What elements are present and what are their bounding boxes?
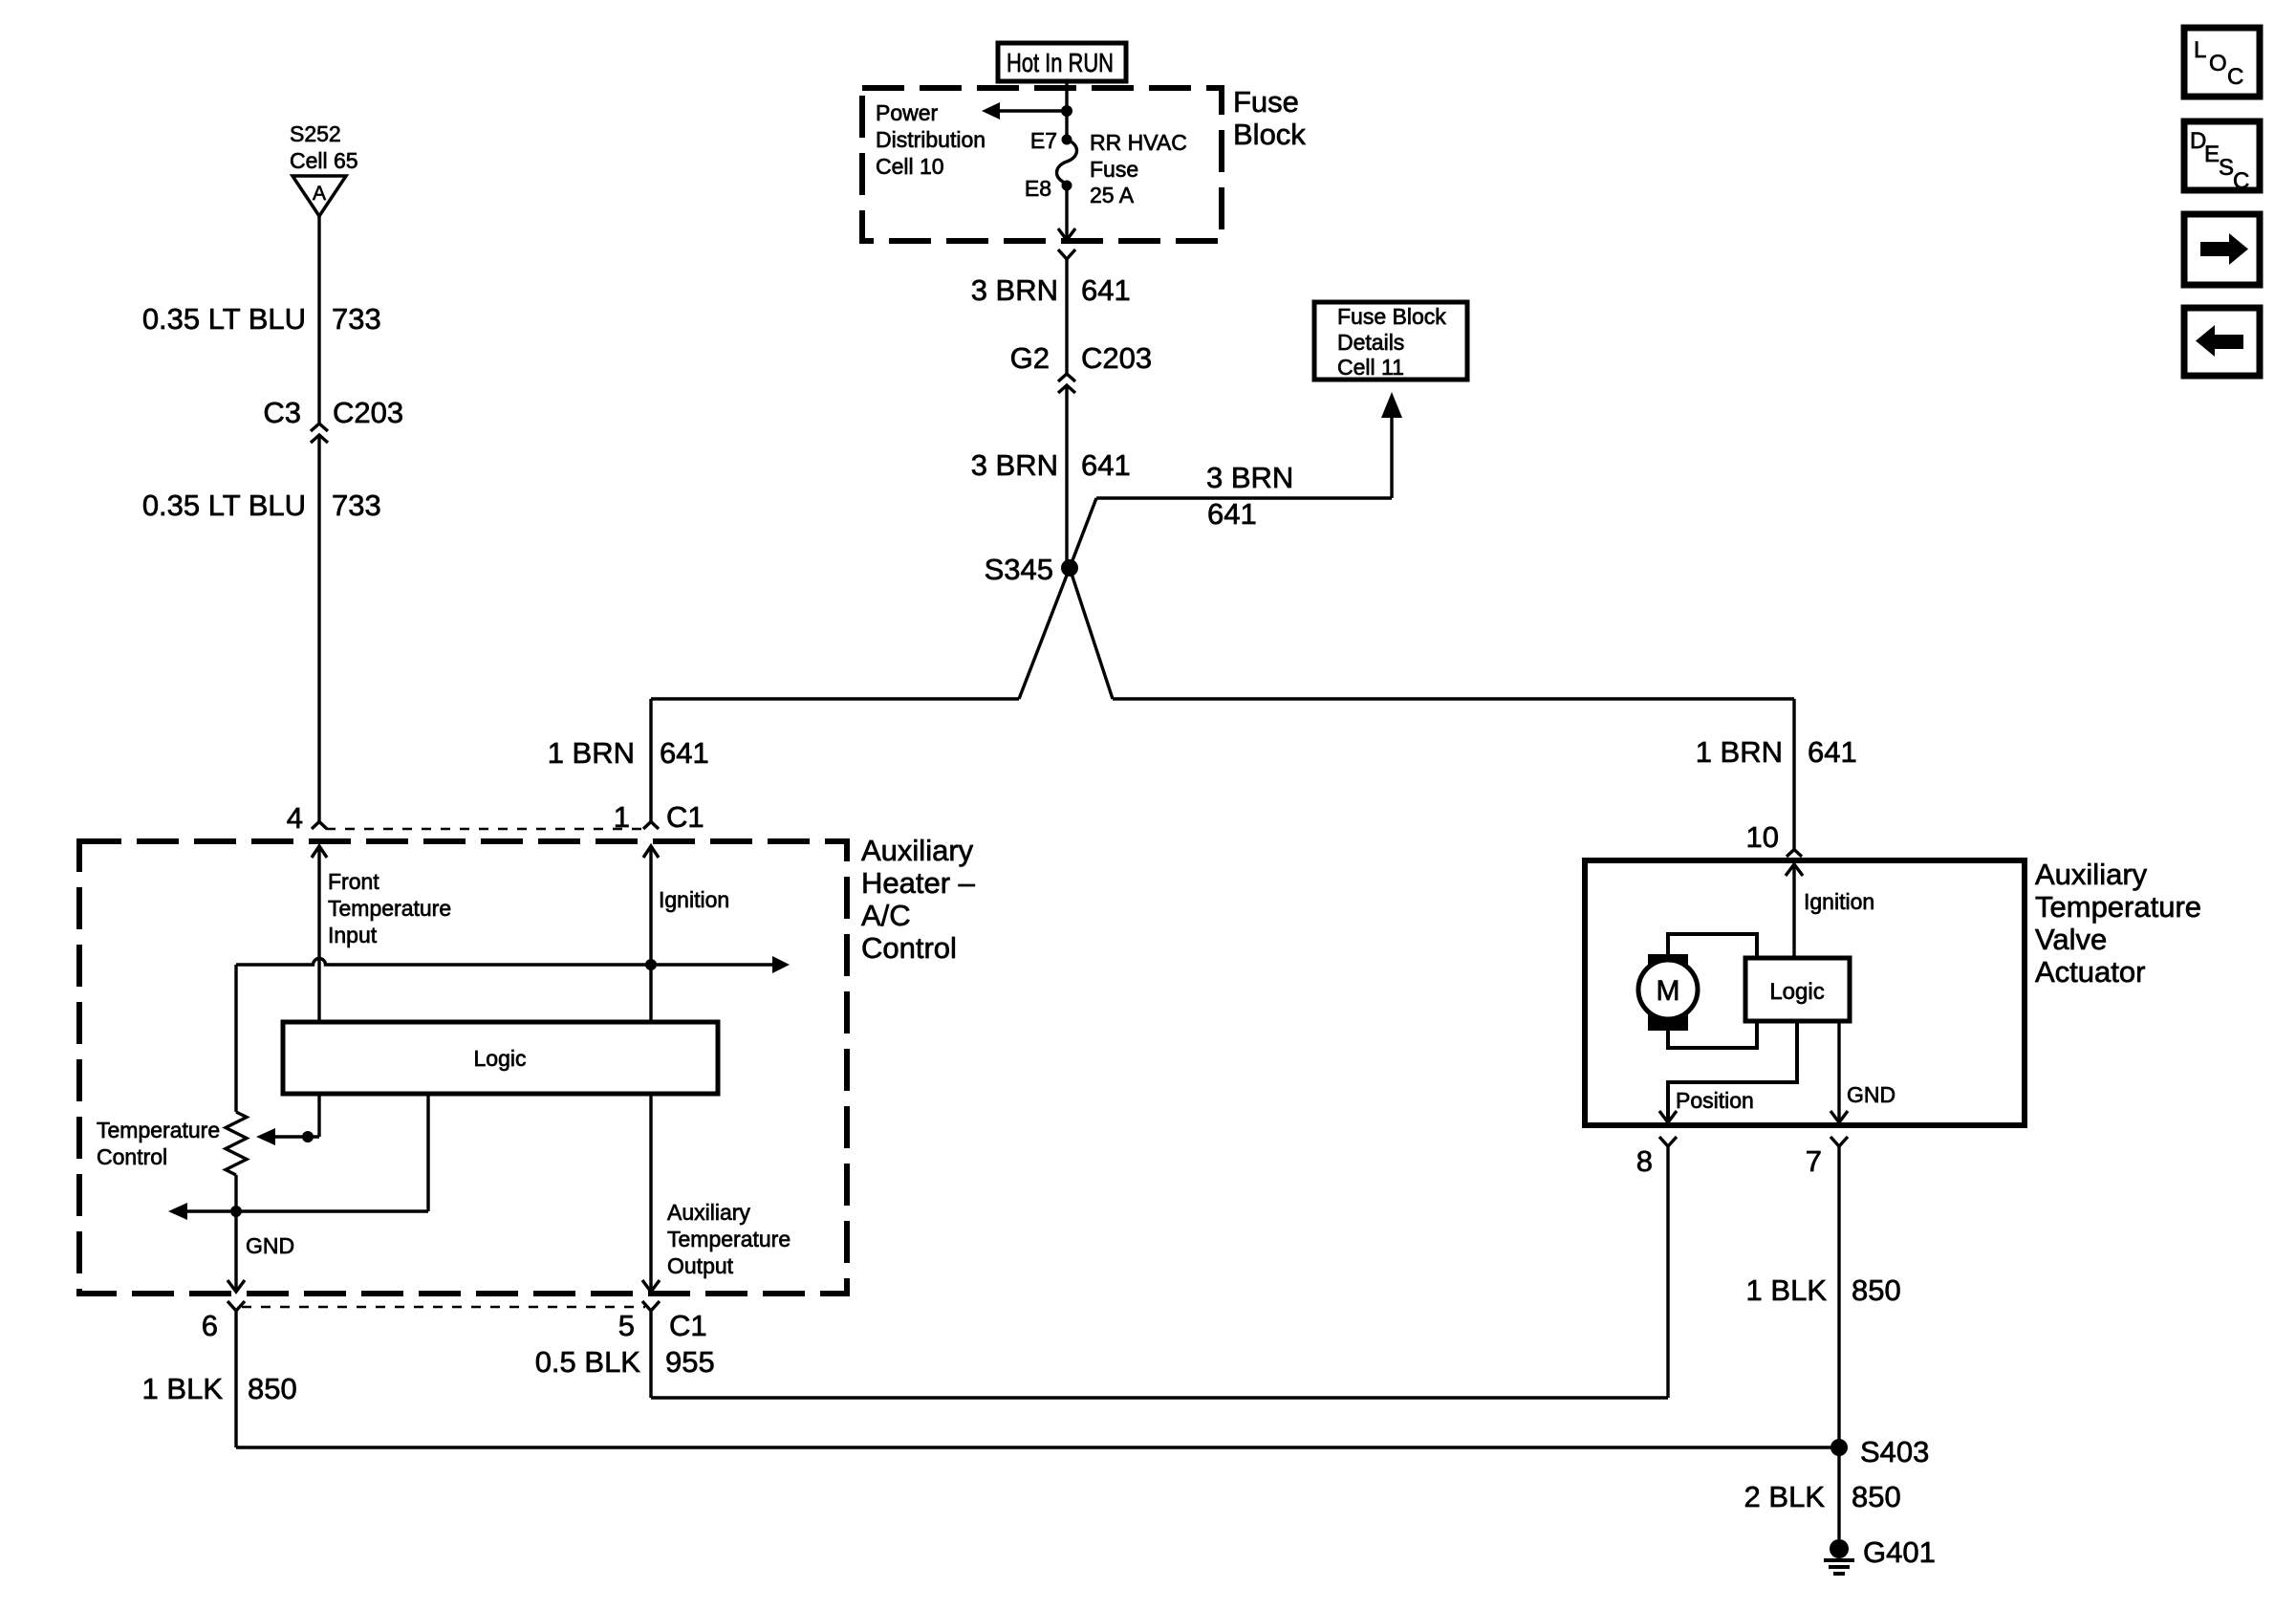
junction node (power distribution tap): [1061, 105, 1072, 117]
label 0.35 LT BLU 733 (upper): [142, 302, 381, 336]
svg-text:Ignition: Ignition: [1804, 889, 1874, 914]
svg-text:Ignition: Ignition: [659, 887, 729, 912]
previous-page arrow icon: [2184, 308, 2260, 376]
svg-text:Input: Input: [328, 923, 378, 947]
connector chevron below fuse block: [1058, 250, 1075, 374]
svg-text:C203: C203: [333, 396, 403, 429]
svg-text:733: 733: [332, 489, 381, 522]
connector C1 thin dashed line (top): [326, 828, 644, 831]
svg-text:25 A: 25 A: [1090, 183, 1135, 207]
svg-text:Auxiliary: Auxiliary: [861, 834, 974, 867]
svg-text:3 BRN: 3 BRN: [1206, 461, 1293, 494]
label 1 BRN 641 (left): [548, 736, 709, 770]
svg-text:E: E: [2204, 141, 2220, 167]
svg-text:Temperature: Temperature: [667, 1227, 791, 1251]
splice symbol S252 Cell 65 (triangle A): [290, 121, 358, 216]
connector G2 / C203 (in-line, double chevron): [1010, 341, 1152, 393]
junction node on ignition wire: [645, 959, 657, 970]
svg-text:641: 641: [1081, 448, 1131, 482]
svg-text:Control: Control: [861, 931, 957, 965]
svg-text:Output: Output: [667, 1253, 734, 1278]
svg-text:Cell 11: Cell 11: [1337, 355, 1404, 380]
svg-text:641: 641: [1207, 497, 1257, 531]
splice S345: [985, 553, 1078, 586]
svg-text:C1: C1: [669, 1309, 707, 1342]
LOC reference icon: [2184, 28, 2260, 97]
svg-text:Valve: Valve: [2035, 923, 2107, 956]
svg-text:1 BLK: 1 BLK: [142, 1372, 224, 1405]
svg-text:955: 955: [665, 1345, 715, 1379]
svg-text:Details: Details: [1337, 330, 1404, 355]
wire from C203 to splice S345: [1065, 385, 1068, 566]
svg-text:E8: E8: [1025, 176, 1051, 201]
splice S403: [1830, 1435, 1929, 1469]
svg-text:5: 5: [618, 1309, 635, 1342]
svg-text:L: L: [2194, 37, 2206, 63]
svg-text:Cell 10: Cell 10: [876, 154, 944, 179]
svg-text:Fuse: Fuse: [1233, 85, 1299, 119]
svg-text:Position: Position: [1676, 1088, 1754, 1113]
temperature control output arrow (left): [168, 1203, 242, 1220]
svg-text:G401: G401: [1863, 1535, 1936, 1569]
svg-text:Control: Control: [97, 1144, 167, 1169]
svg-text:1 BRN: 1 BRN: [1696, 735, 1783, 769]
svg-text:850: 850: [248, 1372, 297, 1405]
label 3 BRN 641 (lower): [971, 448, 1131, 482]
svg-text:0.5 BLK: 0.5 BLK: [535, 1345, 641, 1379]
fuse block dashed box: [862, 88, 1222, 241]
svg-text:Fuse: Fuse: [1090, 157, 1138, 182]
pin 8 connector chevron: [1659, 1137, 1677, 1398]
label 1 BLK 850 (right): [1746, 1273, 1901, 1307]
pin 1 label C1: [614, 800, 704, 834]
terminal E7: [1030, 128, 1072, 153]
label 2 BLK 850: [1744, 1480, 1901, 1513]
svg-text:Temperature: Temperature: [2035, 890, 2201, 924]
svg-text:Hot In RUN: Hot In RUN: [1007, 48, 1114, 77]
wire S403 to ground G401: [1837, 1447, 1840, 1539]
svg-text:G2: G2: [1010, 341, 1050, 375]
svg-text:733: 733: [332, 302, 381, 336]
pin 5 label C1: [618, 1309, 707, 1342]
pin 6 connector chevron: [227, 1301, 245, 1447]
svg-text:7: 7: [1806, 1144, 1822, 1178]
Front Temperature Input wire (pin 4 into logic): [312, 846, 327, 1022]
motor M: [1638, 954, 1698, 1031]
svg-text:S403: S403: [1860, 1435, 1929, 1469]
Auxiliary Temperature Valve Actuator box: [1585, 860, 2025, 1125]
svg-text:Logic: Logic: [474, 1046, 527, 1071]
svg-text:Front: Front: [328, 869, 379, 894]
wiper arrow from logic: [256, 1094, 319, 1145]
svg-text:O: O: [2209, 51, 2227, 76]
label 0.5 BLK 955: [535, 1345, 715, 1379]
svg-text:GND: GND: [1847, 1082, 1895, 1107]
svg-text:GND: GND: [246, 1233, 294, 1258]
svg-text:10: 10: [1746, 820, 1779, 854]
DESC reference icon: [2184, 121, 2260, 194]
wire from E8 to fuse block edge with arrow: [1058, 185, 1075, 240]
svg-text:2 BLK: 2 BLK: [1744, 1480, 1826, 1513]
label Fuse Block: [1233, 85, 1306, 151]
svg-text:850: 850: [1852, 1480, 1901, 1513]
svg-text:1 BRN: 1 BRN: [548, 736, 635, 770]
pin 10 connector chevron: [1787, 850, 1802, 858]
svg-text:850: 850: [1852, 1273, 1901, 1307]
ground G401: [1824, 1535, 1936, 1574]
Auxiliary Temperature Output wire: [642, 1094, 660, 1292]
Logic box (right): [1745, 958, 1850, 1021]
wire S345 to pin 1 (1 BRN 641): [651, 568, 1070, 821]
Ignition wire (pin 10 into logic): [1786, 864, 1803, 958]
svg-text:RR HVAC: RR HVAC: [1090, 130, 1187, 155]
svg-text:1: 1: [614, 800, 630, 834]
svg-text:Auxiliary: Auxiliary: [667, 1200, 750, 1225]
svg-text:Auxiliary: Auxiliary: [2035, 858, 2148, 891]
Hot In RUN power feed box: [998, 43, 1126, 81]
fuse RR HVAC Fuse 25 A: [1057, 140, 1077, 184]
label 1 BRN 641 (right): [1696, 735, 1857, 769]
svg-text:C1: C1: [666, 800, 704, 834]
svg-text:M: M: [1657, 975, 1680, 1007]
wire S345 to pin 10 (1 BRN 641): [1070, 568, 1794, 849]
svg-text:3 BRN: 3 BRN: [971, 273, 1058, 307]
connector C1 thin dashed line (bottom): [242, 1306, 645, 1309]
svg-text:8: 8: [1636, 1144, 1653, 1178]
svg-text:A/C: A/C: [861, 899, 911, 932]
pin 4 connector chevron: [312, 822, 327, 830]
svg-text:Power: Power: [876, 100, 939, 125]
svg-text:Distribution: Distribution: [876, 127, 986, 152]
connector C3 / C203 (in-line, double chevron): [263, 396, 403, 443]
potentiometer Temperature Control: [97, 1112, 247, 1211]
svg-text:Fuse Block: Fuse Block: [1337, 304, 1446, 329]
svg-text:C: C: [2227, 64, 2243, 90]
svg-text:6: 6: [202, 1309, 218, 1342]
svg-text:1 BLK: 1 BLK: [1746, 1273, 1828, 1307]
label Auxiliary Heater - A/C Control: [861, 834, 976, 965]
wire pot junction to logic bottom: [236, 1094, 428, 1211]
svg-text:C203: C203: [1081, 341, 1152, 375]
svg-text:3 BRN: 3 BRN: [971, 448, 1058, 482]
svg-text:Cell 65: Cell 65: [290, 148, 358, 173]
pin 1 connector chevron: [643, 822, 659, 830]
svg-text:C: C: [2233, 168, 2249, 194]
svg-text:S: S: [2219, 155, 2234, 181]
wire branch to Fuse Block Details (3 BRN 641): [1070, 392, 1402, 568]
svg-text:Heater –: Heater –: [861, 866, 976, 900]
wire from Hot In RUN into fuse block: [1065, 81, 1068, 138]
svg-text:0.35 LT BLU: 0.35 LT BLU: [142, 489, 306, 522]
front temperature signal wire with arrow: [236, 956, 790, 1112]
Ignition wire (pin 1 into logic): [643, 846, 659, 1022]
svg-text:Temperature: Temperature: [328, 896, 451, 921]
label Power Distribution Cell 10: [876, 100, 986, 179]
svg-text:A: A: [313, 183, 326, 205]
svg-text:S252: S252: [290, 121, 341, 146]
motor wires to logic: [1668, 934, 1757, 1048]
label 3 BRN / 641 (branch): [1206, 461, 1293, 531]
svg-text:641: 641: [1808, 735, 1857, 769]
wire 733 lower segment: [317, 435, 320, 821]
svg-text:641: 641: [1081, 273, 1131, 307]
pin 7 connector chevron: [1830, 1137, 1848, 1447]
wire 0.5 BLK 955 to actuator pin 8: [651, 1396, 1668, 1399]
svg-text:C3: C3: [263, 396, 301, 429]
pin 5 connector chevron C1: [642, 1301, 660, 1398]
Logic box (left): [283, 1022, 718, 1094]
label 1 BLK 850 (left): [142, 1372, 297, 1405]
label 0.35 LT BLU 733 (lower): [142, 489, 381, 522]
wire 1 BLK 850 to splice S403: [236, 1446, 1839, 1448]
svg-text:Logic: Logic: [1769, 979, 1824, 1005]
label Auxiliary Temperature Valve Actuator: [2035, 858, 2201, 989]
svg-text:S345: S345: [985, 553, 1053, 586]
Fuse Block Details Cell 11 reference box: [1314, 302, 1467, 380]
arrow to Power Distribution: [982, 102, 1067, 120]
svg-text:0.35 LT BLU: 0.35 LT BLU: [142, 302, 306, 336]
label Auxiliary Temperature Output: [667, 1200, 791, 1278]
Auxiliary Heater A/C Control dashed box: [79, 841, 847, 1294]
svg-text:Temperature: Temperature: [97, 1118, 220, 1142]
svg-text:Block: Block: [1233, 118, 1306, 151]
next-page arrow icon: [2184, 214, 2260, 285]
terminal E8: [1025, 176, 1072, 201]
svg-text:4: 4: [287, 801, 303, 835]
Position wire: [1659, 1021, 1797, 1122]
GND wire (right box): [1830, 1021, 1848, 1122]
svg-text:641: 641: [660, 736, 709, 770]
label 3 BRN 641 (upper): [971, 273, 1131, 307]
wire 733 upper segment: [317, 216, 320, 423]
label Front Temperature Input: [328, 869, 451, 947]
svg-text:E7: E7: [1030, 128, 1057, 153]
svg-text:Actuator: Actuator: [2035, 955, 2145, 989]
GND wire (left box): [227, 1211, 245, 1292]
